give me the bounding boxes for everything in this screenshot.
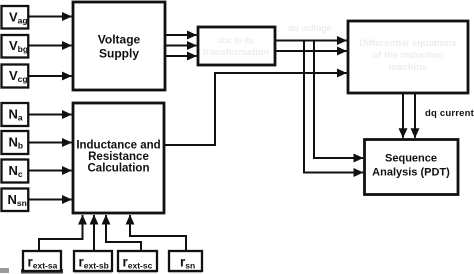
svg-text:transformation: transformation [202, 47, 269, 58]
svg-text:Differential equations: Differential equations [359, 38, 456, 49]
svg-text:dq current: dq current [425, 108, 474, 119]
svg-text:Supply: Supply [99, 46, 139, 60]
svg-text:Voltage: Voltage [98, 33, 141, 47]
svg-text:Resistance: Resistance [88, 151, 149, 163]
svg-text:Calculation: Calculation [88, 163, 150, 175]
svg-text:dq voltage: dq voltage [288, 23, 332, 34]
svg-text:Inductance and: Inductance and [76, 140, 160, 152]
svg-text:machine: machine [389, 62, 428, 73]
svg-text:Analysis (PDT): Analysis (PDT) [372, 167, 450, 179]
svg-text:abc to dq: abc to dq [218, 36, 254, 45]
svg-text:Sequence: Sequence [385, 153, 437, 165]
svg-text:of the induction: of the induction [372, 50, 443, 61]
